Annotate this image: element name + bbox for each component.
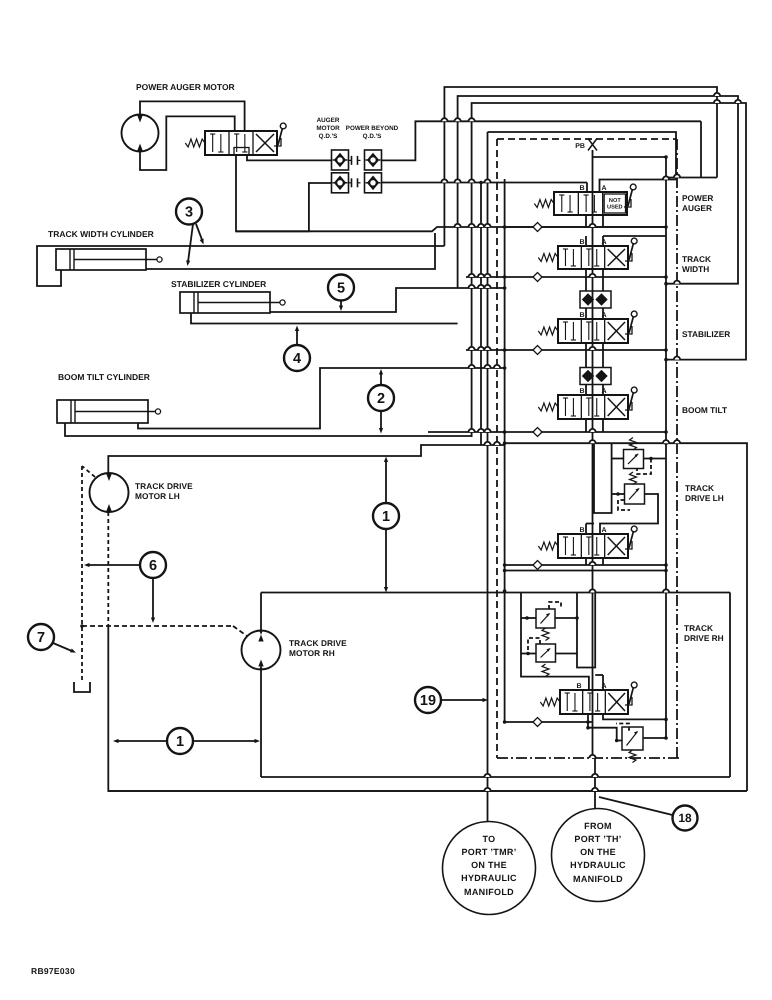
wire V3 down <box>586 343 603 350</box>
box LH top edge <box>505 443 747 791</box>
node TO PORT TMR <box>443 822 536 915</box>
label TRACK DRIVE MOTOR LH <box>135 481 193 501</box>
junction drain <box>80 624 84 628</box>
svg-text:TRACK WIDTH CYLINDER: TRACK WIDTH CYLINDER <box>48 229 154 239</box>
wire hop 6 <box>484 179 490 182</box>
svg-text:19: 19 <box>420 693 436 709</box>
wire RH motor bottom <box>260 670 262 778</box>
svg-text:Q.D.'S: Q.D.'S <box>363 133 382 140</box>
wire QD row2 long line <box>382 182 588 184</box>
port labels V2 <box>579 239 606 246</box>
wire RH1 left <box>521 617 536 619</box>
wire RH feed left <box>521 593 589 691</box>
arrow callout1 up <box>384 457 388 504</box>
junction lh <box>503 441 668 445</box>
wire power-beyond branch <box>480 183 482 446</box>
wire stabilizer rod line <box>270 286 506 312</box>
svg-text:HYDRAULIC: HYDRAULIC <box>570 860 626 870</box>
wire hop 48 <box>592 788 598 791</box>
wire right link power-auger <box>666 121 717 177</box>
qd power-beyond row2 right <box>365 173 382 193</box>
junction tw <box>664 282 668 286</box>
wire hop 1 <box>455 118 461 121</box>
svg-text:HYDRAULIC: HYDRAULIC <box>461 873 517 883</box>
svg-text:PORT ’TH’: PORT ’TH’ <box>574 834 621 844</box>
rail row4 <box>428 431 666 433</box>
box RH loop <box>261 592 488 594</box>
wire hop 45 <box>484 774 490 777</box>
motor track-drive-LH <box>90 473 129 512</box>
wire LH B stub <box>586 524 594 535</box>
wire hop 38 <box>663 176 669 179</box>
qd-break row2 <box>349 178 361 187</box>
arrow callout3 a <box>185 224 193 266</box>
wire LH1 left <box>612 458 624 460</box>
relief LH1 spring <box>630 438 637 451</box>
wire V4 A feed <box>602 350 604 367</box>
callout 19 <box>415 687 441 713</box>
label POWER AUGER section <box>682 193 713 213</box>
svg-text:A: A <box>602 527 607 534</box>
arrow callout3 b <box>196 224 205 245</box>
wire hop 30 <box>494 365 500 368</box>
wire RH2 right <box>555 653 577 655</box>
wire hop 14 <box>484 274 490 277</box>
rail right vertical <box>665 157 667 738</box>
wire track-width bottom line <box>146 233 435 269</box>
arrow LH motor top <box>106 473 110 478</box>
shuttle row5 <box>533 561 542 570</box>
svg-text:USED: USED <box>607 205 623 211</box>
svg-text:DRIVE LH: DRIVE LH <box>685 493 724 503</box>
wire hop 10 <box>484 224 490 227</box>
node PB <box>575 139 597 151</box>
arrow LH motor bottom <box>106 508 110 513</box>
motor power-auger <box>122 115 159 152</box>
arrow RH motor bottom <box>259 665 263 670</box>
wire hop 37 <box>663 589 669 592</box>
svg-text:TRACK DRIVE: TRACK DRIVE <box>135 481 193 491</box>
relief LH1 <box>624 450 644 469</box>
wire RH valve stubs <box>595 675 603 690</box>
callout 1 upper <box>373 503 399 529</box>
label AUGER MOTOR Q.D.'S <box>316 117 340 140</box>
shuttle row3 <box>533 346 542 355</box>
wire hop 32 <box>494 442 500 445</box>
wire hop 22 <box>589 347 595 350</box>
wire motor-bottom loop to valve B <box>140 116 235 170</box>
rail row2 <box>466 276 666 278</box>
arrow callout5 <box>339 301 343 312</box>
svg-text:MOTOR LH: MOTOR LH <box>135 491 180 501</box>
label TRACK WIDTH CYLINDER <box>48 229 154 239</box>
pilot RH3 dashed <box>616 724 629 731</box>
wire hop 0 <box>441 118 447 121</box>
callout 5 <box>328 275 354 301</box>
wire V1 A down <box>602 215 604 227</box>
wire hop 16 <box>469 285 475 288</box>
relief LH2 <box>625 484 645 504</box>
cb block stabilizer <box>580 291 611 308</box>
valve manual power-auger <box>185 123 286 155</box>
wire LH2 right <box>600 494 658 534</box>
wire valve to auger QD row1 <box>247 155 332 160</box>
svg-text:5: 5 <box>337 281 345 297</box>
valve track-width <box>538 238 637 269</box>
svg-text:6: 6 <box>149 558 157 574</box>
cylinder stabilizer <box>180 292 285 313</box>
svg-text:PORT ’TMR’: PORT ’TMR’ <box>462 847 517 857</box>
wire hop 3 <box>441 179 447 182</box>
wire hop 7 <box>455 224 461 227</box>
label TRACK DRIVE MOTOR RH <box>289 638 347 658</box>
arrow callout4 <box>295 326 299 346</box>
svg-text:B: B <box>579 388 584 395</box>
svg-text:TRACK: TRACK <box>685 483 714 493</box>
valve boom-tilt <box>538 387 637 419</box>
wire hop 24 <box>478 429 484 432</box>
wire boom-tilt rod line <box>138 366 506 428</box>
wire RH right edge <box>729 593 731 778</box>
wire left outer loop <box>108 626 747 791</box>
pilot LH2 dashed <box>618 500 630 510</box>
svg-text:STABILIZER CYLINDER: STABILIZER CYLINDER <box>171 279 266 289</box>
svg-text:B: B <box>579 239 584 246</box>
wire hop 49 <box>589 755 595 758</box>
rail left vertical <box>504 179 506 722</box>
wire top frame 2 <box>458 96 738 288</box>
svg-text:PB: PB <box>575 143 585 150</box>
wire V3 A feed <box>602 277 604 291</box>
wire callout18 <box>599 797 673 815</box>
bus LH <box>594 443 612 513</box>
svg-text:TRACK: TRACK <box>682 254 711 264</box>
wire hop 8 <box>469 224 475 227</box>
svg-text:B: B <box>576 683 581 690</box>
svg-text:A: A <box>602 388 607 395</box>
boundary dashdot right <box>676 139 678 758</box>
qd power-beyond row1 right <box>365 150 382 170</box>
svg-text:STABILIZER: STABILIZER <box>682 329 730 339</box>
wire RH box bottom <box>261 776 730 778</box>
label POWER BEYOND Q.D.'S <box>346 125 399 140</box>
callout 4 <box>284 345 310 371</box>
wire valve to auger QD row2 <box>236 155 332 231</box>
svg-text:MOTOR RH: MOTOR RH <box>289 648 335 658</box>
wire hop 28 <box>469 365 475 368</box>
wire hop 19 <box>469 347 475 350</box>
svg-text:FROM: FROM <box>584 821 612 831</box>
svg-text:MOTOR: MOTOR <box>316 125 340 132</box>
svg-text:RB97E030: RB97E030 <box>31 966 75 976</box>
wire V2 B up <box>585 236 587 246</box>
shuttle row2 <box>533 273 542 282</box>
wire top frame 3 <box>472 103 746 437</box>
arrow callout2 up <box>379 369 383 385</box>
svg-text:TRACK DRIVE: TRACK DRIVE <box>289 638 347 648</box>
wire hop 42 <box>714 93 720 96</box>
bus RH <box>577 593 595 668</box>
wire callout6 down <box>151 578 155 624</box>
wire LH1 right <box>644 458 667 460</box>
wire callout6 left <box>84 563 141 567</box>
wire hop 21 <box>484 347 490 350</box>
svg-text:7: 7 <box>37 630 45 646</box>
wire V2 A up <box>603 236 666 246</box>
svg-text:A: A <box>602 312 607 319</box>
arrow RH motor top <box>259 630 263 635</box>
wire hop 18 <box>484 285 490 288</box>
svg-text:2: 2 <box>377 391 385 407</box>
wire hop 5 <box>469 179 475 182</box>
cylinder boom-tilt <box>57 400 161 423</box>
wire LH motor drain dashed <box>107 512 109 626</box>
label STABILIZER section <box>682 329 730 339</box>
svg-text:18: 18 <box>678 811 692 825</box>
svg-text:A: A <box>602 683 607 690</box>
wire top frame 1 <box>444 87 717 246</box>
svg-text:BOOM TILT: BOOM TILT <box>682 405 727 415</box>
wire RH1 right <box>555 616 579 620</box>
junction t1 <box>664 155 668 159</box>
wire RH3 left <box>586 726 622 741</box>
relief RH2 spring <box>542 664 549 677</box>
rail row5 <box>505 564 666 566</box>
wire hop 44 <box>735 100 741 103</box>
junction rh1 <box>525 616 529 620</box>
rail row1 <box>505 226 666 228</box>
rail row3 <box>466 349 666 351</box>
svg-text:B: B <box>579 312 584 319</box>
valve power-auger <box>534 184 636 215</box>
callout 1 lower <box>167 728 193 754</box>
svg-text:A: A <box>602 239 607 246</box>
label BOOM TILT section <box>682 405 727 415</box>
wire V1 B down <box>585 215 587 227</box>
wire hop 20 <box>478 347 484 350</box>
port labels V5 <box>579 527 606 534</box>
port labels V6 <box>576 683 606 690</box>
svg-text:1: 1 <box>176 734 184 750</box>
wire V2 down <box>586 269 603 277</box>
port labels V1 <box>579 185 606 192</box>
wire RH2 left <box>521 653 536 655</box>
junction r3a <box>503 348 668 352</box>
box LH bottom edge <box>503 569 668 573</box>
junction r5a <box>503 563 668 567</box>
label TRACK DRIVE RH section <box>684 623 724 643</box>
svg-text:MANIFOLD: MANIFOLD <box>464 887 514 897</box>
wire V4 down <box>586 419 603 432</box>
boundary dashed left <box>496 139 498 758</box>
label STABILIZER CYLINDER <box>171 279 266 289</box>
wire V1 A up <box>600 180 677 193</box>
wire LH2 left <box>612 493 625 495</box>
svg-text:POWER: POWER <box>682 193 713 203</box>
svg-text:B: B <box>579 185 584 192</box>
wire hop 4 <box>455 179 461 182</box>
wire V4 stubs <box>586 385 603 396</box>
wire PB right <box>593 156 667 158</box>
callout 18 <box>673 806 698 831</box>
wire hop 25 <box>484 429 490 432</box>
pilot LH1 dashed <box>637 459 651 475</box>
wire hop 2 <box>469 118 475 121</box>
wire hop 43 <box>714 100 720 103</box>
junction V1 <box>479 181 483 185</box>
wire hop 11 <box>589 224 595 227</box>
wire track-width rod line <box>37 246 444 286</box>
svg-text:4: 4 <box>293 351 301 367</box>
svg-text:3: 3 <box>185 205 193 221</box>
junction rh3 <box>615 739 619 743</box>
svg-text:AUGER: AUGER <box>682 203 712 213</box>
svg-text:POWER AUGER MOTOR: POWER AUGER MOTOR <box>136 82 235 92</box>
wire hop 46 <box>592 774 598 777</box>
junction rh3b <box>664 736 668 740</box>
shuttle row1 <box>533 223 542 232</box>
wire RH3 right <box>643 737 666 739</box>
label BOOM TILT CYLINDER <box>58 372 150 382</box>
callout 3 <box>176 199 202 225</box>
relief RH2 <box>536 644 556 662</box>
boundary dashed top <box>497 138 677 140</box>
wire dashed drain horizontal <box>82 626 247 636</box>
wire boom-tilt bottom line <box>65 423 472 436</box>
label TRACK WIDTH section <box>682 254 711 274</box>
wire motor-top to valve A <box>140 101 245 131</box>
node FROM PORT TH <box>552 809 645 902</box>
wire callout1b left <box>113 739 168 743</box>
callout 7 <box>28 624 54 650</box>
wire hop 13 <box>478 274 484 277</box>
arrow callout2 down <box>379 411 383 434</box>
cylinder track-width <box>56 249 162 270</box>
wire hop 27 <box>589 562 595 565</box>
wire hop 35 <box>674 440 680 443</box>
boundary dashdot bottom <box>497 757 680 759</box>
valve stabilizer <box>538 311 637 343</box>
relief RH3 <box>622 727 643 750</box>
wire V3 B feed <box>585 277 587 291</box>
relief RH3 spring <box>629 750 636 763</box>
wire dashed drain vertical <box>82 466 95 682</box>
cb block boom-tilt <box>580 368 611 385</box>
junction r4a <box>503 430 668 434</box>
wire hop 41 <box>674 357 680 360</box>
svg-text:NOT: NOT <box>609 198 621 204</box>
svg-text:ON THE: ON THE <box>471 860 507 870</box>
svg-text:DRIVE RH: DRIVE RH <box>684 633 724 643</box>
wire hop 12 <box>469 274 475 277</box>
svg-text:TO: TO <box>483 834 496 844</box>
valve track-drive-LH <box>538 526 637 558</box>
port labels V3 <box>579 312 606 319</box>
svg-text:BOOM TILT CYLINDER: BOOM TILT CYLINDER <box>58 372 150 382</box>
label RB97E030 <box>31 966 75 976</box>
svg-text:AUGER: AUGER <box>317 117 340 124</box>
svg-text:Q.D.'S: Q.D.'S <box>319 133 338 140</box>
wire hop 29 <box>484 365 490 368</box>
pilot RH2 dashed <box>528 638 540 650</box>
wire hop 17 <box>478 285 484 288</box>
wire V5 down <box>586 558 603 565</box>
junction r6a <box>503 720 507 724</box>
wire hop 36 <box>589 589 595 592</box>
plug symbol <box>74 682 90 692</box>
wire hop 33 <box>589 440 595 443</box>
wire track-width return <box>236 227 666 231</box>
wire QD row1 up and over <box>382 121 702 160</box>
motor track-drive-RH <box>242 631 281 670</box>
wire hop 9 <box>478 224 484 227</box>
relief RH1 spring <box>542 628 549 641</box>
wire hop 47 <box>484 788 490 791</box>
junction rh2 <box>526 652 530 656</box>
svg-text:ON THE: ON THE <box>580 847 616 857</box>
callout 6 <box>140 552 166 578</box>
wire LH motor feed <box>108 445 504 474</box>
wire V3 stubs <box>586 308 603 319</box>
junction lh2 <box>616 492 620 496</box>
rail row6 <box>505 721 593 723</box>
valve track-drive-RH <box>540 682 637 714</box>
box RH top edge <box>488 592 731 594</box>
tank line PB <box>592 150 594 758</box>
svg-text:WIDTH: WIDTH <box>682 264 709 274</box>
wire callout1b right <box>193 739 261 743</box>
wire V4 B feed <box>585 350 587 367</box>
svg-text:1: 1 <box>382 509 390 525</box>
shuttle row4 <box>533 428 542 437</box>
wire RH motor top <box>260 593 262 631</box>
pilot RH1 dashed <box>549 602 561 609</box>
wire TO-port line <box>487 132 489 822</box>
wire hop 39 <box>674 174 680 177</box>
box solid inner top <box>488 132 677 180</box>
wire hop 40 <box>674 281 680 284</box>
qd-break row1 <box>349 156 361 165</box>
label TRACK DRIVE LH section <box>685 483 724 503</box>
wire stabilizer bottom line <box>191 313 458 324</box>
callout 2 <box>368 385 394 411</box>
wire hop 23 <box>469 429 475 432</box>
wire bottom long <box>108 790 746 792</box>
wire FROM line <box>594 758 596 809</box>
wire V1 B up <box>586 183 588 193</box>
relief RH1 <box>536 609 555 628</box>
wire hop 31 <box>484 442 490 445</box>
arrow callout7 <box>53 643 77 655</box>
arrow callout1 down <box>384 529 388 593</box>
wire hop 34 <box>663 440 669 443</box>
junction rh <box>503 589 668 593</box>
svg-text:TRACK: TRACK <box>684 623 713 633</box>
port labels V4 <box>579 388 606 395</box>
wire callout19 <box>441 698 489 702</box>
wire V6 down <box>586 714 668 728</box>
shuttle row6 <box>533 718 542 727</box>
svg-text:POWER BEYOND: POWER BEYOND <box>346 125 399 132</box>
label POWER AUGER MOTOR <box>136 82 235 92</box>
svg-text:A: A <box>602 185 607 192</box>
svg-text:MANIFOLD: MANIFOLD <box>573 874 623 884</box>
junction r2a <box>503 275 668 279</box>
qd auger-motor row1 left <box>332 150 349 170</box>
wire hop 26 <box>589 429 595 432</box>
junction r1a <box>503 225 668 229</box>
junction st <box>664 358 668 362</box>
